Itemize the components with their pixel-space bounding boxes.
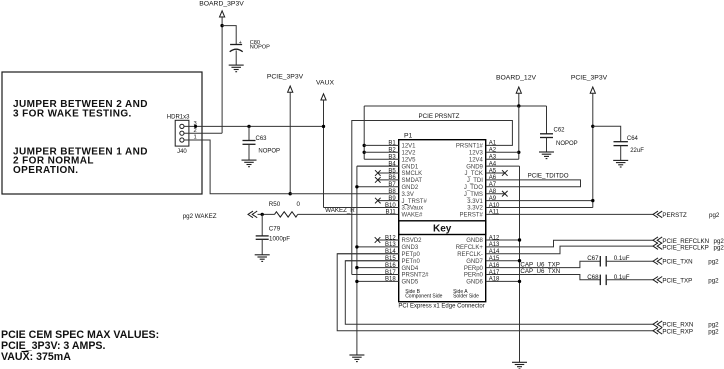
svg-text:12V5: 12V5	[402, 157, 417, 163]
ground A-side	[512, 361, 527, 363]
svg-text:REFCLK-: REFCLK-	[457, 252, 483, 258]
svg-text:pg2: pg2	[708, 328, 719, 335]
svg-text:NOPOP: NOPOP	[250, 45, 270, 51]
svg-text:VAUX: 375mA: VAUX: 375mA	[1, 351, 71, 363]
wire stub B15	[345, 260, 398, 262]
offpage PCIE_RXP	[653, 328, 658, 335]
svg-text:PCIE_REFCLKP: PCIE_REFCLKP	[662, 244, 708, 251]
wire stub B4	[357, 165, 399, 167]
capacitor C64	[620, 141, 622, 143]
ground B-side	[349, 354, 364, 356]
ground under C79	[255, 254, 270, 256]
wire C64 branch	[593, 126, 621, 141]
ground under C80	[229, 64, 244, 66]
svg-text:pg2: pg2	[709, 212, 720, 219]
ground under C63	[242, 159, 257, 161]
wire A11 PERSTZ	[486, 213, 653, 215]
wire A9 3.3V1	[486, 200, 593, 202]
junction pin3 wire	[194, 125, 197, 128]
wire B4 gnd stub	[357, 165, 399, 167]
wire PCIE_3P3V to B8	[290, 193, 399, 195]
junction B1 12V	[363, 144, 366, 147]
offpage PCIE_RXN	[653, 321, 658, 328]
svg-text:PERp0: PERp0	[464, 266, 484, 272]
svg-text:C63: C63	[256, 136, 268, 142]
wire stub B7	[357, 186, 399, 188]
junction BOARD_12V stem	[517, 104, 520, 107]
svg-text:3 FOR WAKE TESTING.: 3 FOR WAKE TESTING.	[13, 108, 132, 119]
svg-text:WAKEZ_R: WAKEZ_R	[325, 207, 355, 214]
connector P1 body	[399, 140, 486, 302]
wire stub A12	[486, 239, 520, 241]
offpage PCIE_TXN	[653, 258, 658, 265]
svg-text:Component Side: Component Side	[405, 294, 442, 300]
junction VAUX pin3	[322, 125, 325, 128]
svg-text:PETn0: PETn0	[402, 259, 421, 265]
svg-text:+: +	[239, 40, 242, 46]
svg-text:R50: R50	[269, 201, 281, 208]
wire A10 3.3V2	[486, 207, 593, 209]
svg-text:PCIE_TXN: PCIE_TXN	[662, 259, 692, 266]
svg-text:GND1: GND1	[402, 164, 419, 170]
P1 key band	[399, 221, 486, 235]
junction A9 3P3V	[591, 199, 594, 202]
junction B13 gnd	[355, 245, 358, 248]
wire stub B12	[378, 239, 399, 241]
svg-text:NOPOP: NOPOP	[258, 149, 280, 155]
svg-text:J_TCK: J_TCK	[465, 171, 483, 177]
no-connect A8	[502, 191, 508, 197]
J40 pin 1 circle	[180, 138, 184, 142]
junction B18 gnd	[355, 280, 358, 283]
wire A16 to C67	[486, 261, 601, 267]
svg-text:pg2: pg2	[714, 244, 724, 251]
wire VAUX to B10	[324, 207, 399, 209]
svg-text:BOARD_12V: BOARD_12V	[496, 74, 537, 81]
wire stub B18	[357, 280, 399, 282]
svg-text:PCIE_TXP: PCIE_TXP	[662, 277, 692, 284]
wire stub B17	[352, 274, 399, 276]
svg-text:GND7: GND7	[466, 259, 483, 265]
svg-text:SMDAT: SMDAT	[402, 178, 423, 184]
wire 12V right drop to A2-A3	[518, 106, 520, 159]
svg-text:Key: Key	[433, 224, 452, 235]
svg-text:PRSNT2#: PRSNT2#	[402, 273, 430, 279]
offpage PCIE_REFCLKP	[653, 243, 658, 250]
svg-text:12V1: 12V1	[402, 144, 417, 150]
no-connect B9	[375, 198, 381, 204]
svg-text:J_TDI: J_TDI	[467, 178, 483, 184]
junction pin1 3P3V	[289, 192, 292, 195]
no-connect B12	[375, 237, 381, 243]
wire C68 to TXP	[606, 279, 653, 281]
svg-text:12V4: 12V4	[469, 157, 484, 163]
wire stub A18	[486, 280, 520, 282]
svg-text:OPERATION.: OPERATION.	[13, 165, 78, 176]
svg-text:C62: C62	[554, 128, 566, 134]
svg-text:pg2: pg2	[708, 259, 719, 266]
wire C80 branch	[222, 26, 236, 45]
svg-text:RSVD2: RSVD2	[402, 238, 423, 244]
svg-text:J_TRST#: J_TRST#	[402, 199, 428, 205]
wire stub B3	[364, 158, 399, 160]
svg-text:GND6: GND6	[466, 280, 483, 286]
junction A15 gnd	[518, 259, 521, 262]
wire A13 to REFCLKN	[486, 240, 653, 247]
ground under C62	[539, 151, 554, 153]
svg-text:Solder Side: Solder Side	[453, 294, 479, 300]
wire stub B2	[364, 151, 399, 153]
wire A6-A7 TDITDO loop	[486, 180, 581, 187]
svg-text:REFCLK+: REFCLK+	[456, 245, 484, 251]
offpage PCIE_TXP	[653, 277, 658, 284]
svg-text:VAUX: VAUX	[316, 79, 334, 86]
svg-text:12V3: 12V3	[469, 151, 484, 157]
svg-text:CAP_U6_TXN: CAP_U6_TXN	[520, 268, 560, 275]
svg-text:22uF: 22uF	[630, 148, 644, 154]
wire PCIE PRSNTZ net	[352, 121, 513, 275]
svg-text:0: 0	[297, 201, 301, 208]
connector J40 HDR1x3 body	[175, 120, 189, 146]
svg-text:J40: J40	[177, 149, 187, 155]
junction B2 12V	[363, 151, 366, 154]
no-connect A5	[502, 170, 508, 176]
capacitor C67	[599, 256, 601, 267]
svg-text:GND9: GND9	[466, 164, 483, 170]
svg-text:PRSNT1#: PRSNT1#	[456, 144, 484, 150]
svg-text:GND8: GND8	[466, 238, 483, 244]
wire J40 pin1 to PCIE_3P3V net	[184, 140, 290, 194]
capacitor C80 polarized	[230, 44, 242, 46]
wire J40 pin3 to VAUX net	[184, 125, 324, 127]
wire GND B-side vertical	[356, 166, 358, 355]
svg-text:HDR1x3: HDR1x3	[167, 114, 190, 120]
svg-text:PETp0: PETp0	[402, 252, 421, 258]
no-connect B5	[375, 170, 381, 176]
wire GND A-side vertical	[519, 166, 521, 362]
svg-text:3.3Vaux: 3.3Vaux	[402, 206, 424, 212]
svg-text:12V2: 12V2	[402, 151, 417, 157]
junction A12 gnd	[518, 238, 521, 241]
svg-text:PERn0: PERn0	[464, 273, 484, 279]
ground under C64	[613, 159, 628, 161]
svg-text:J_TDO: J_TDO	[464, 185, 483, 191]
no-connect B6	[375, 177, 381, 183]
junction A18 gnd	[518, 280, 521, 283]
svg-text:PERSTZ: PERSTZ	[662, 212, 687, 219]
svg-text:NOPOP: NOPOP	[556, 141, 578, 147]
wire stub B13	[357, 246, 399, 248]
svg-text:A1: A1	[489, 141, 497, 147]
resistor R50	[275, 212, 298, 217]
wire C67 to TXN	[606, 260, 653, 262]
wire R50 to B11 WAKE#	[298, 213, 399, 215]
wire stub B5	[378, 172, 399, 174]
wire stub A3	[486, 158, 519, 160]
svg-text:GND2: GND2	[402, 185, 419, 191]
junction C80 tap	[220, 24, 223, 27]
wire J40 pin2 to BOARD_3P3V	[184, 132, 222, 134]
svg-text:pg2: pg2	[708, 277, 719, 284]
capacitor C79	[261, 214, 263, 236]
wire stub A15	[486, 260, 520, 262]
svg-text:C67: C67	[587, 255, 599, 262]
wire WAKEZ to R50	[258, 213, 275, 215]
svg-text:P1: P1	[404, 133, 413, 140]
wire stub B1	[364, 144, 399, 146]
wire B15 PETn0 to RXN	[345, 261, 653, 325]
wire stub A4	[486, 165, 520, 167]
svg-text:PCIE_RXP: PCIE_RXP	[662, 328, 693, 335]
wire stub B14	[337, 253, 399, 255]
svg-text:PCI Express x1 Edge Connector: PCI Express x1 Edge Connector	[398, 304, 484, 310]
wire 12V left drop to B1-B3	[363, 106, 365, 159]
svg-text:3.3V2: 3.3V2	[467, 206, 483, 212]
svg-text:GND5: GND5	[402, 280, 419, 286]
junction B7 gnd	[355, 185, 358, 188]
junction C79 tap	[261, 213, 264, 216]
svg-text:1000pF: 1000pF	[269, 235, 290, 242]
svg-text:3.3V1: 3.3V1	[467, 199, 483, 205]
offpage PERSTZ	[653, 211, 658, 218]
junction A2 12V	[517, 151, 520, 154]
svg-text:GND3: GND3	[402, 245, 419, 251]
svg-text:WAKE#: WAKE#	[402, 213, 423, 219]
capacitor C63	[248, 126, 250, 140]
wire stub A5	[486, 172, 505, 174]
junction C64 tap	[591, 125, 594, 128]
capacitor C68	[599, 275, 601, 286]
svg-text:GND4: GND4	[402, 266, 419, 272]
wire stub B9	[378, 200, 399, 202]
svg-text:3.3V: 3.3V	[402, 192, 414, 198]
junction B16 gnd	[355, 266, 358, 269]
wire stub B6	[378, 179, 399, 181]
svg-text:C79: C79	[269, 226, 281, 233]
junction C63 tap	[247, 125, 250, 128]
note box	[2, 72, 202, 194]
svg-text:PCIE_3P3V: PCIE_3P3V	[267, 73, 304, 80]
svg-text:B8: B8	[388, 189, 396, 195]
wire B14 PETp0 to RXP	[337, 254, 653, 331]
svg-text:B11: B11	[385, 210, 396, 216]
capacitor C62	[546, 133, 548, 135]
svg-text:PCIE PRSNTZ: PCIE PRSNTZ	[419, 113, 460, 120]
J40 pin 2 circle	[180, 131, 184, 135]
wire stub A8	[486, 193, 505, 195]
svg-text:pg2 WAKEZ: pg2 WAKEZ	[183, 213, 217, 220]
svg-text:PERST#: PERST#	[460, 213, 484, 219]
J40 pin 3 circle	[180, 124, 184, 128]
wire stub A2	[486, 151, 519, 153]
offpage PCIE_REFCLKN	[653, 237, 658, 244]
svg-text:BOARD_3P3V: BOARD_3P3V	[199, 1, 244, 8]
wire C62 drop	[546, 106, 548, 134]
svg-text:C68: C68	[587, 274, 599, 281]
svg-text:PCIE_3P3V: PCIE_3P3V	[571, 74, 608, 81]
svg-text:PCIE_TDITDO: PCIE_TDITDO	[528, 173, 569, 180]
svg-text:J_TMS: J_TMS	[464, 192, 483, 198]
wire stub B16	[357, 267, 399, 269]
svg-text:C64: C64	[627, 136, 639, 142]
wire A14 to REFCLKP	[486, 246, 653, 254]
P1 pin B10 overbar	[404, 204, 407, 206]
svg-text:SMCLK: SMCLK	[402, 171, 423, 177]
wire A17 to C68	[486, 275, 601, 280]
wire BOARD_12V rail	[364, 105, 546, 107]
